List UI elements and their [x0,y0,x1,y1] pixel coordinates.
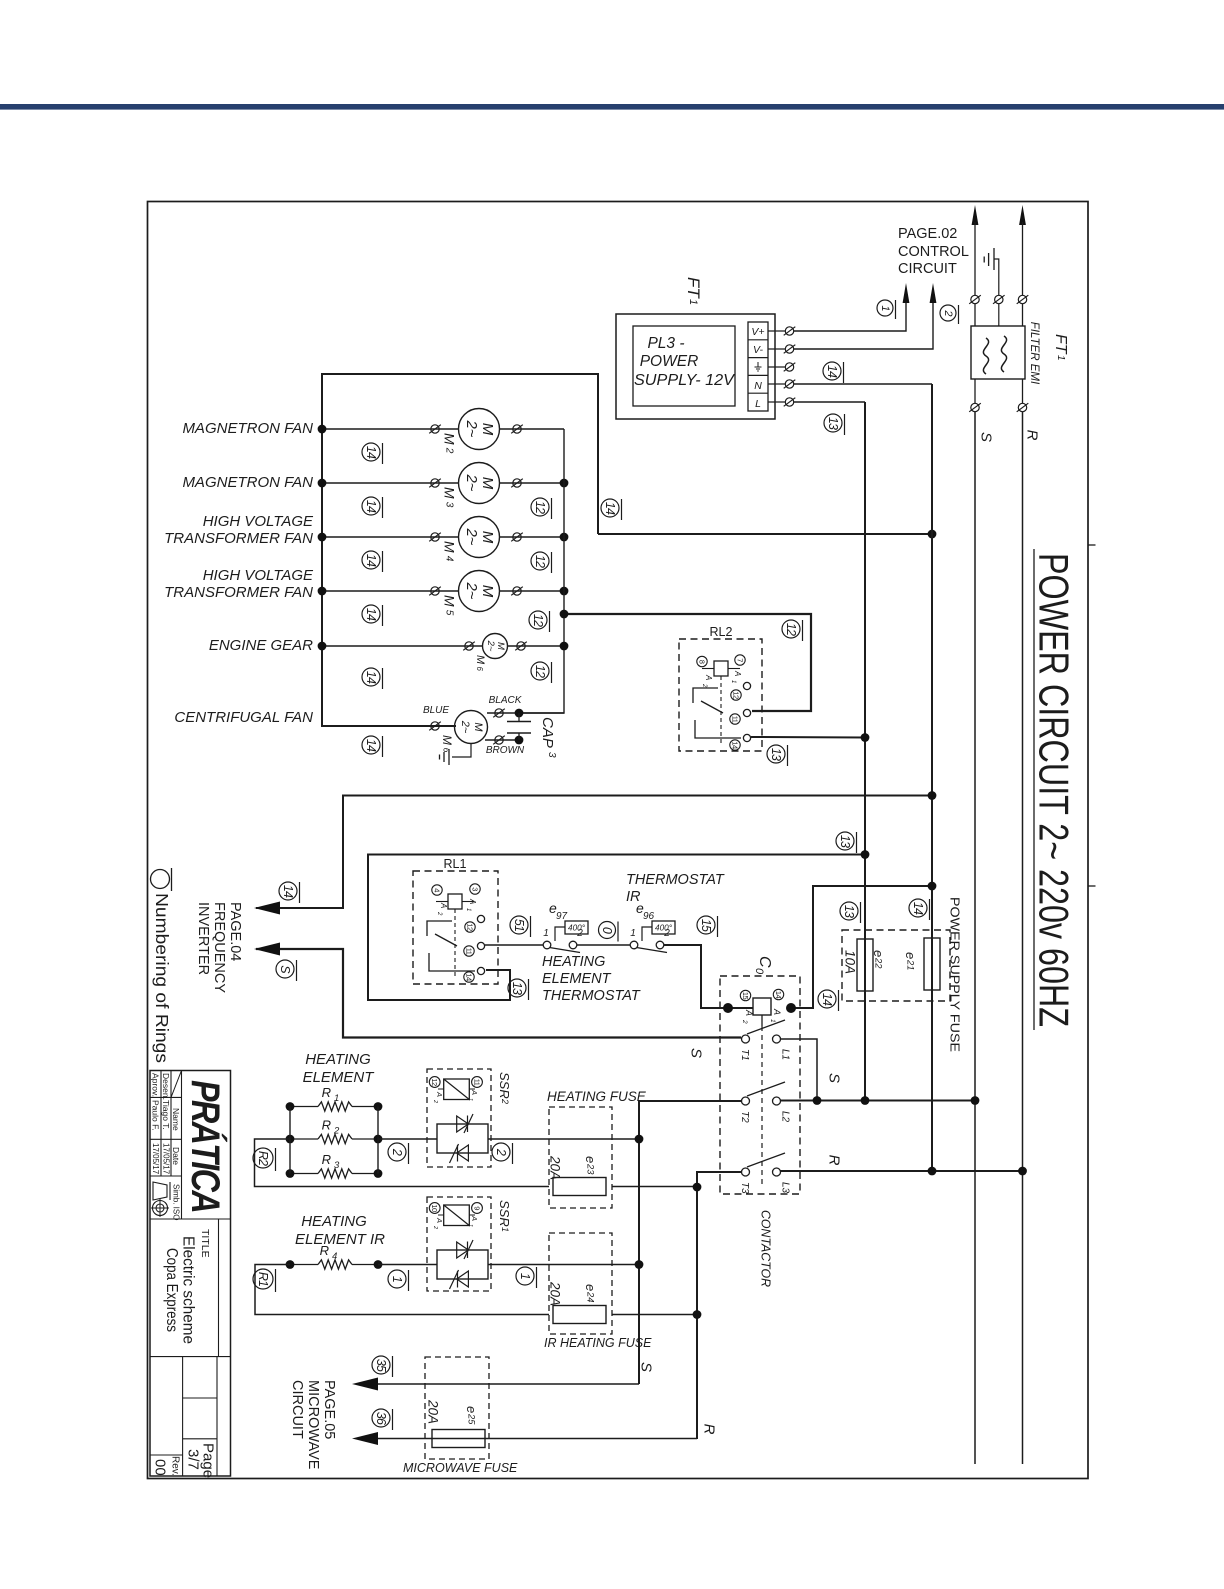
svg-text:2: 2 [432,1099,438,1103]
svg-text:2: 2 [436,911,442,916]
title block name date texts [151,1073,182,1175]
terminal left M5 [431,587,439,595]
svg-text:PAGE.05: PAGE.05 [321,1380,337,1439]
node right bus row M5 [560,587,569,596]
svg-text:A: A [439,902,448,908]
node N net at L3 [928,1167,937,1176]
svg-text:2: 2 [390,1148,404,1156]
node L net bottom [861,1096,870,1105]
svg-text:PRÁTICA: PRÁTICA [183,1080,228,1212]
wire e96 to contactor coil A2 [664,945,753,1008]
contactor coil pin left [740,990,750,1000]
fuse e24 20A [553,1306,606,1324]
svg-text:R: R [320,1243,329,1258]
svg-text:MICROWAVE: MICROWAVE [305,1380,321,1470]
ring 13 on wire [836,832,857,853]
wire L1 down to L2 [781,1039,818,1100]
svg-text:THERMOSTAT: THERMOSTAT [626,872,725,888]
svg-text:THERMOSTAT: THERMOSTAT [542,988,641,1004]
svg-text:FILTER EMI: FILTER EMI [1028,322,1040,385]
svg-text:14: 14 [364,739,378,752]
RL2 contact pin 11 [730,714,740,724]
svg-text:M: M [479,585,496,598]
svg-text:13: 13 [769,748,783,761]
svg-text:11: 11 [473,1079,482,1086]
svg-text:A: A [470,1215,479,1221]
svg-text:Simb. ISO: Simb. ISO [172,1184,181,1220]
terminal right M5 [513,587,521,595]
svg-text:S: S [826,1073,843,1083]
svg-text:96: 96 [643,911,655,922]
svg-text:PL3 -: PL3 - [647,335,684,352]
svg-text:V-: V- [753,344,764,356]
terminal right M2 [513,425,521,433]
R phase top arrow [1019,205,1026,225]
svg-text:BLACK: BLACK [489,695,523,706]
svg-text:R: R [701,1424,718,1435]
svg-text:FT: FT [1052,334,1069,355]
svg-text:RL2: RL2 [710,625,733,639]
svg-text:0: 0 [600,927,614,934]
label e23 [583,1156,598,1175]
svg-text:MAGNETRON FAN: MAGNETRON FAN [182,420,313,437]
node on left bus row M4 [318,533,327,542]
SSR1 pin 10 [429,1203,440,1214]
motor M5 [459,571,500,612]
svg-text:2~: 2~ [463,581,480,599]
node T3 net at e23 [693,1183,702,1192]
power supply PL3 box [616,314,775,419]
terminal right M4 [513,533,521,541]
svg-text:INVERTER: INVERTER [195,902,211,975]
contactor coil pin right [773,989,783,999]
svg-text:R: R [322,1085,331,1100]
wire R2 right to SSR2 [378,1138,437,1140]
SSR1 A2 A1 [432,1215,479,1229]
terminal right M6 engine [517,642,525,650]
svg-text:5: 5 [444,610,455,616]
svg-text:L2: L2 [780,1111,791,1123]
terminal left M3 [431,479,439,487]
frame fold tick right lower [1088,885,1096,887]
ring 13 at PL3 L [824,414,845,435]
svg-text:M: M [442,541,458,553]
wire - motor M5 row [322,590,459,592]
svg-text:14: 14 [465,973,474,981]
label SSR2 [497,1072,512,1104]
contactor pole2 [742,1082,786,1105]
svg-text:BROWN: BROWN [486,745,525,756]
PL3 terminal strip [748,322,768,411]
power supply fuse dashed box [842,930,950,1001]
svg-text:15: 15 [699,919,713,932]
ring 14 below fuse box [818,990,839,1011]
svg-text:ELEMENT IR: ELEMENT IR [295,1231,385,1248]
svg-text:HEATING FUSE: HEATING FUSE [547,1089,647,1104]
svg-text:6: 6 [475,667,484,672]
svg-text:A: A [468,898,477,904]
svg-text:M: M [474,655,486,665]
heating fuse e23 dashed box [549,1107,612,1208]
svg-text:Desen.: Desen. [161,1073,171,1100]
svg-text:3: 3 [471,887,480,891]
svg-text:M: M [442,487,458,499]
wire SSR1 out to T2 net [488,1264,639,1266]
svg-text:14: 14 [281,885,295,898]
svg-text:A: A [733,670,742,676]
label e21 [903,952,918,970]
node R3 left [286,1169,295,1178]
svg-text:0: 0 [753,968,765,975]
wire V+ to page2 arrow 1 [768,330,785,332]
ring 15 [697,916,718,937]
wire - motor M2 row [322,428,459,430]
svg-text:R: R [322,1118,331,1133]
wire contactor coil A1 to N net [792,886,932,1008]
svg-text:12: 12 [430,1078,439,1086]
ring 1 left of SSR1 [388,1270,409,1291]
node R2 left [286,1135,295,1144]
wire page04 arrow1 to N net [256,796,932,909]
title underline [1033,549,1035,1030]
svg-text:A: A [704,674,713,680]
contactor A2 A1 labels [741,1008,782,1024]
SSR2 A2 A1 [432,1089,479,1103]
node brown-cap junction [515,736,524,745]
svg-text:2~: 2~ [463,419,480,437]
svg-text:00: 00 [152,1459,169,1476]
svg-text:12: 12 [533,555,547,568]
svg-text:R2: R2 [256,1151,270,1166]
svg-text:25: 25 [467,1413,477,1425]
svg-text:M: M [479,531,496,544]
svg-text:BLUE: BLUE [423,705,449,716]
label FT1 filter [1052,334,1069,361]
svg-text:TRANSFORMER FAN: TRANSFORMER FAN [164,584,313,601]
node R4 left [286,1260,295,1269]
svg-text:2~: 2~ [463,527,480,545]
wire R4 left return [255,1265,549,1315]
node R3 right [374,1169,383,1178]
svg-text:1: 1 [334,1093,339,1104]
svg-text:HEATING: HEATING [305,1051,371,1068]
wire 13-net to RL1 NO contact loop [368,855,865,1001]
wire microwave S [377,1383,639,1385]
svg-text:Name: Name [171,1108,181,1131]
svg-text:C: C [756,956,773,968]
wire SSR2 out to T2 net [488,1138,639,1140]
node junction on N line [928,530,937,539]
svg-text:23: 23 [586,1163,596,1175]
svg-text:CONTROL: CONTROL [898,244,969,260]
ring label 14 row M4 [362,551,383,572]
svg-text:1: 1 [879,305,891,311]
SSR2 opto square [438,1079,475,1100]
svg-text:1: 1 [467,1224,473,1227]
svg-text:24: 24 [586,1291,596,1302]
svg-text:ELEMENT: ELEMENT [303,1069,376,1086]
svg-text:S: S [688,1048,705,1058]
svg-text:R: R [322,1152,331,1167]
svg-text:1: 1 [769,1019,776,1023]
wire microwave R [377,1438,697,1440]
ring 1 right of SSR1 [516,1267,537,1288]
svg-text:3/7: 3/7 [185,1449,202,1470]
ring 13 below RL1 [508,979,529,1000]
ring label 14 row M2 [362,443,383,464]
motor M2 [459,409,500,450]
RL1 contact pin 11 [464,946,474,956]
SSR2 dashed box [427,1069,491,1167]
svg-text:14: 14 [364,500,378,513]
ring 51 [510,916,531,937]
svg-text:PAGE.04: PAGE.04 [227,902,243,961]
wire - left fan bus N [322,374,598,726]
node heavy wire on right bus [560,610,569,619]
ring 12 at RL2 [782,620,803,641]
terminal left M2 [431,425,439,433]
SSR2 pin 12 [429,1077,440,1088]
svg-text:21: 21 [906,959,916,970]
svg-text:36: 36 [374,1412,388,1425]
svg-text:V+: V+ [751,326,764,338]
node R4 right [374,1260,383,1269]
svg-text:22: 22 [874,957,884,969]
label SSR1 [497,1200,512,1232]
ring 2 left of SSR2 [388,1143,409,1164]
svg-text:FREQUENCY: FREQUENCY [211,902,227,993]
relay RL2 internals [714,661,728,676]
svg-text:2: 2 [942,309,954,316]
RL2 labels A2 A1 [701,670,742,688]
R phase long line [1022,412,1024,1171]
svg-text:1: 1 [730,680,736,683]
ground symbol at filter [984,248,999,295]
SSR1 pin 9 [472,1203,483,1214]
terminal left M6 engine [465,642,473,650]
svg-text:M: M [472,722,484,732]
node coil A1 [786,1003,796,1013]
svg-text:12: 12 [784,623,798,636]
svg-text:20A: 20A [426,1399,441,1424]
svg-text:CIRCUIT: CIRCUIT [289,1380,305,1439]
RL2 coil pin 7 [735,655,745,665]
contactor armature dashed line [761,1015,763,1026]
ring 13 at RL2 pin14 wire [767,745,788,766]
node L1L2 [813,1096,822,1105]
node T2 net at SSR1 wire [635,1260,644,1269]
ring 1 [877,300,896,319]
svg-text:1: 1 [687,299,699,305]
L net vertical line [864,402,866,1100]
heating element buses [289,1107,291,1174]
RL2 coil pin 8 [697,656,707,666]
svg-text:13: 13 [838,835,852,848]
svg-text:R: R [1024,430,1041,441]
svg-text:POWER SUPPLY FUSE: POWER SUPPLY FUSE [948,897,963,1052]
svg-text:11: 11 [731,716,740,723]
arrow page04 lower [254,943,280,956]
svg-text:14: 14 [774,991,783,999]
ring 14 centrifugal [362,736,383,757]
svg-text:SUPPLY- 12V: SUPPLY- 12V [634,372,736,389]
node R phase at L3 [1018,1167,1027,1176]
node N net coil wire [928,882,937,891]
wire R4 right to SSR1 [378,1264,437,1266]
node R1 left [286,1102,295,1111]
svg-text:e: e [583,1156,598,1163]
heavy wire right bus to RL2 common [564,614,811,711]
wire e23 to T3 net [612,1186,697,1188]
svg-text:Paulo F.: Paulo F. [151,1100,161,1131]
svg-text:1: 1 [465,908,471,911]
motor M6 engine gear [483,634,508,659]
ring 14 at PL3 N [823,362,844,383]
svg-text:13: 13 [826,417,840,430]
SSR1 opto square [438,1205,475,1226]
right fan bus wire [523,429,564,713]
svg-text:2: 2 [701,683,707,688]
svg-text:10A: 10A [843,950,858,974]
terminal PE stub [768,366,785,368]
svg-text:e: e [583,1284,598,1291]
svg-text:Date: Date [171,1147,181,1165]
svg-text:6: 6 [442,748,452,753]
thermostat e97 heating element [543,941,551,949]
ring label 14 row M3 [362,497,383,518]
ring sample symbol [151,870,170,889]
thermostat e96 IR [630,941,638,949]
svg-text:14: 14 [911,902,925,915]
svg-text:M: M [442,433,458,445]
svg-text:35: 35 [374,1359,388,1372]
svg-text:M: M [440,735,454,745]
RL2 contact pin 12 [731,690,741,700]
title block frame [150,1071,231,1477]
svg-text:2: 2 [741,1019,748,1024]
svg-text:Electric scheme: Electric scheme [180,1236,197,1344]
arrow microwave S [352,1378,378,1391]
wire T3 down [697,1172,742,1439]
ring label 12 row M3 [531,498,552,519]
terminal BLUE centrifugal [431,722,439,730]
top navy rule [0,104,1224,110]
svg-text:20A: 20A [548,1155,563,1180]
svg-text:S: S [638,1362,655,1372]
svg-text:2: 2 [333,1126,340,1137]
arrow up page02 wire 1 [903,283,910,303]
contactor pole3 [742,1153,786,1176]
node right bus row M4 [560,533,569,542]
svg-text:14: 14 [364,554,378,567]
contactor coil [753,998,771,1015]
svg-text:MAGNETRON FAN: MAGNETRON FAN [182,474,313,491]
EMI filter FT1 box [971,326,1025,379]
RL1 coil pin 3 [470,884,480,894]
IR heating fuse e24 dashed box [549,1233,612,1334]
terminal PE above filter [995,295,1003,303]
svg-text:R1: R1 [256,1272,270,1286]
svg-text:N: N [754,380,762,392]
svg-text:1: 1 [390,1276,404,1282]
svg-text:ELEMENT: ELEMENT [542,971,612,987]
svg-text:4: 4 [433,888,442,892]
terminal left M4 [431,533,439,541]
svg-text:T1: T1 [739,1049,750,1061]
svg-text:2~: 2~ [485,640,496,652]
node N net outer wire [928,791,937,800]
svg-text:R: R [826,1155,843,1166]
node R2 right [374,1135,383,1144]
svg-text:POWER: POWER [640,353,699,370]
resistor R3 [290,1169,378,1178]
svg-text:1: 1 [500,1227,510,1232]
wire centrifugal black [487,712,564,714]
node T2 net at SSR2 wire [635,1135,644,1144]
relay RL1 dashed box [413,871,498,984]
svg-text:14: 14 [364,608,378,621]
svg-text:2~: 2~ [459,720,471,734]
svg-text:A: A [470,1089,479,1095]
svg-text:20A: 20A [548,1281,563,1306]
wire N net [768,383,785,385]
svg-text:CONTACTOR: CONTACTOR [759,1210,774,1287]
resistor R2 [290,1134,378,1143]
SSR2 triac [437,1114,488,1163]
ring 14 at fuse e21 [909,899,930,920]
terminal BROWN [495,736,503,744]
svg-text:17/05/17: 17/05/17 [162,1143,171,1175]
wire T2 to SSR outputs [639,1101,742,1384]
svg-text:L1: L1 [780,1049,791,1060]
SSR1 triac [437,1240,488,1289]
wire RL1 common to thermostats [485,944,543,946]
svg-text:RL1: RL1 [444,857,467,871]
svg-text:17/05/17: 17/05/17 [151,1143,160,1175]
svg-text:Aprov.: Aprov. [151,1073,161,1097]
svg-text:IR: IR [626,889,641,905]
node S phase at L2 [971,1096,980,1105]
svg-text:3: 3 [444,502,455,508]
svg-text:2: 2 [576,928,583,939]
svg-text:1: 1 [518,1273,532,1279]
svg-text:2: 2 [500,1098,510,1104]
svg-text:13: 13 [842,905,856,918]
capacitor CAP3 [507,713,531,740]
node R1 right [374,1102,383,1111]
relay RL1 internals [448,894,462,909]
node left bus engine gear [318,642,327,651]
svg-text:S: S [978,432,995,442]
svg-text:ENGINE GEAR: ENGINE GEAR [209,637,313,654]
svg-text:SSR: SSR [497,1200,512,1227]
svg-text:1: 1 [467,1098,473,1101]
node coil A2 [723,1003,733,1013]
microwave fuse dashed box [425,1357,489,1459]
svg-text:2: 2 [663,928,670,939]
svg-text:PAGE.02: PAGE.02 [898,226,957,242]
simb iso symbols [151,1182,170,1217]
svg-text:L: L [755,398,761,410]
RL1 contact pin 14 [464,972,474,982]
label e25 [464,1406,479,1425]
svg-text:SSR: SSR [497,1072,512,1099]
svg-text:HIGH VOLTAGE: HIGH VOLTAGE [203,513,314,530]
svg-text:51: 51 [512,919,526,931]
motor M3 [459,463,500,504]
label FT1 above PL3 [684,277,703,305]
svg-text:M: M [442,595,458,607]
